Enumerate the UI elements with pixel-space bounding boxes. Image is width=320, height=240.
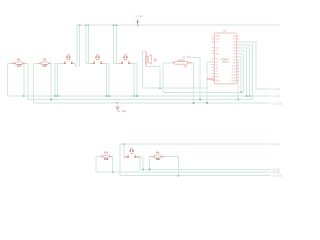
wire S3 left feeds from rail <box>113 25 115 63</box>
power flag U1_5V <box>136 15 143 25</box>
svg-text:AREF: AREF <box>216 35 222 38</box>
pins U1 right side <box>236 35 239 37</box>
svg-text:U?: U? <box>223 30 227 33</box>
svg-text:RST: RST <box>216 75 220 78</box>
svg-text:220: 220 <box>17 65 22 68</box>
wire S4 stubs <box>124 156 127 158</box>
svg-text:D5: D5 <box>233 50 235 53</box>
wire S3 right drops <box>133 62 137 64</box>
wire R2 loop <box>34 62 39 64</box>
wire U1 right pin nest <box>239 42 270 89</box>
IC U1 Arduino Uno <box>212 30 240 84</box>
wire S2 left feeds from rail <box>85 25 87 63</box>
pushbutton S3 <box>121 54 130 64</box>
crystal M1 <box>172 56 192 68</box>
wire S4 left feed <box>123 144 125 157</box>
svg-text:D3: D3 <box>233 44 235 47</box>
svg-text:D4: D4 <box>233 47 235 50</box>
wire R1 loop <box>8 63 12 96</box>
svg-text:A0: A0 <box>216 58 218 61</box>
svg-text:U1_D4: U1_D4 <box>272 143 281 146</box>
wire U1 left pin long stub <box>207 78 215 80</box>
wire S1 right feed from rail <box>75 25 79 66</box>
svg-text:U1_CLK: U1_CLK <box>182 56 191 59</box>
wire S3 stubs <box>118 62 122 64</box>
svg-text:A4: A4 <box>216 69 218 72</box>
svg-text:D13: D13 <box>216 41 219 44</box>
wire U1 left pin to bus <box>207 62 212 103</box>
svg-text:A3: A3 <box>216 66 218 69</box>
wire bus bottom net 1 <box>140 169 270 171</box>
svg-text:D7: D7 <box>233 55 235 58</box>
svg-text:5V: 5V <box>216 50 219 53</box>
svg-text:U1_D0: U1_D0 <box>272 88 281 91</box>
wire crystal left to bus <box>163 62 172 64</box>
wire R4 drops <box>150 155 152 157</box>
wire S2 right drops <box>105 62 110 64</box>
svg-text:D0: D0 <box>233 35 235 38</box>
svg-text:D12: D12 <box>232 70 235 73</box>
speaker LS1 <box>146 51 157 67</box>
svg-text:R1: R1 <box>17 58 21 61</box>
svg-text:SCL: SCL <box>232 73 236 76</box>
svg-text:D1: D1 <box>233 38 235 41</box>
resistor R1 <box>13 58 26 67</box>
pushbutton S2 <box>93 54 102 64</box>
svg-text:UNO3: UNO3 <box>222 61 229 64</box>
wire bus net B <box>28 98 253 100</box>
svg-text:A5: A5 <box>216 72 218 75</box>
svg-text:GND: GND <box>216 79 221 82</box>
svg-text:U1_GND: U1_GND <box>272 102 283 105</box>
svg-text:GND: GND <box>216 38 221 41</box>
svg-text:220: 220 <box>42 65 47 68</box>
svg-text:3.3V: 3.3V <box>216 47 220 50</box>
pins U1 left side <box>212 35 215 37</box>
svg-text:D6: D6 <box>233 53 235 56</box>
svg-text:D11: D11 <box>232 67 235 70</box>
svg-text:GND: GND <box>231 79 236 82</box>
svg-text:D9: D9 <box>233 61 235 64</box>
svg-text:A2: A2 <box>216 63 218 66</box>
wire crystal aux to bus <box>192 57 200 99</box>
svg-text:SDA: SDA <box>231 76 235 79</box>
svg-text:U1_D1: U1_D1 <box>272 95 281 98</box>
wire bus L90.3 <box>163 91 244 93</box>
svg-text:D10: D10 <box>232 64 235 67</box>
svg-text:293: 293 <box>183 65 187 68</box>
wire bus bottom net 2 <box>96 171 270 173</box>
resistor R2 <box>38 58 51 67</box>
svg-text:R2: R2 <box>43 58 47 61</box>
wire R3 loop <box>96 156 99 158</box>
wire crystal right to bus <box>192 63 193 103</box>
wire bus net GND <box>34 102 270 104</box>
wire S1 stubs <box>61 63 75 66</box>
svg-text:U1_5V: U1_5V <box>272 24 280 27</box>
svg-text:10k: 10k <box>156 158 161 161</box>
pushbutton S4 <box>127 147 136 157</box>
svg-text:U1_GND: U1_GND <box>272 175 283 178</box>
svg-text:D8: D8 <box>233 58 235 61</box>
wire speaker top pin to bus <box>143 51 147 88</box>
resistor R4 <box>151 152 164 161</box>
wire bus net A <box>8 95 270 97</box>
wire 5V power rail <box>77 25 271 63</box>
svg-text:A1: A1 <box>216 61 218 64</box>
svg-text:U1_GND: U1_GND <box>117 110 127 113</box>
svg-text:10k: 10k <box>104 158 109 161</box>
resistor R3 <box>100 152 113 161</box>
ground U1_GND <box>116 106 127 113</box>
svg-text:U1_D6: U1_D6 <box>272 171 281 174</box>
svg-text:D2: D2 <box>233 41 235 44</box>
wire R1 left red stub <box>11 62 15 64</box>
wire S1 left drops <box>55 62 61 64</box>
svg-text:R3: R3 <box>104 152 108 155</box>
wire S2 stubs <box>90 62 94 64</box>
svg-text:R4: R4 <box>156 152 160 155</box>
wire gnd stub <box>116 103 118 106</box>
junction dots on 5V rail <box>79 24 81 26</box>
wire bottom top rail <box>120 144 270 176</box>
svg-text:VIN: VIN <box>216 53 220 56</box>
wire speaker bottom pin to bus <box>146 67 160 89</box>
wire bus L87.8 <box>143 87 207 89</box>
svg-text:U1_5V: U1_5V <box>136 15 143 18</box>
wire bus bottom net 3 <box>120 175 270 177</box>
wire S4 right drops <box>140 156 143 158</box>
pushbutton S1 <box>64 54 73 64</box>
